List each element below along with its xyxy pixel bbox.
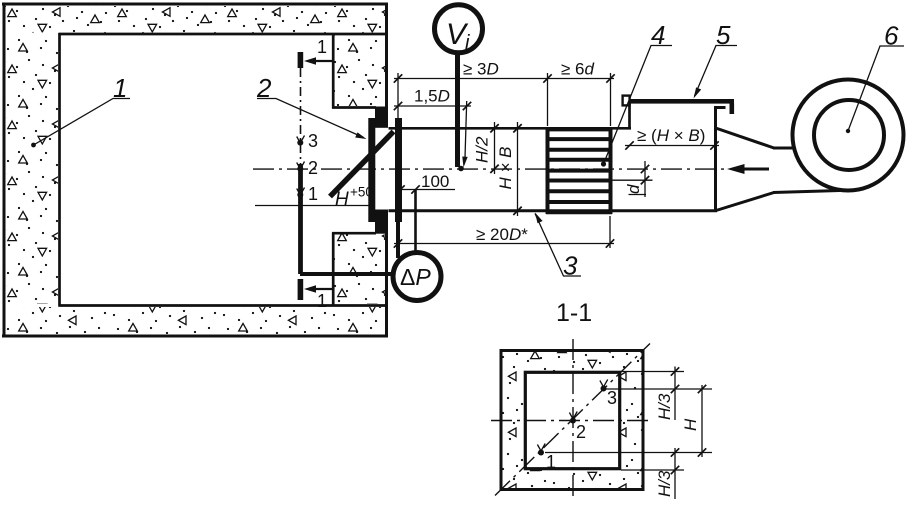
tick H bottom [698,448,706,456]
tick 1,5D right [463,102,471,110]
chamber wall hatch right lower block [335,235,386,305]
connector left wall [628,103,631,130]
section wall hatch [500,349,644,491]
upper right block bottom edge [332,106,376,109]
damper blade 2 [330,132,394,197]
lower right block left edge [332,233,335,306]
dim d second line [611,179,653,181]
chamber wall inner bottom edge [59,304,388,307]
tick H/2 bottom [490,165,498,173]
transition top slant [716,128,775,148]
section dim H/3 upper line [674,367,676,421]
callout 2 leader [257,99,364,138]
callout 1 leader [34,99,131,146]
grid 4 left edge [546,128,550,215]
svg-text:1-1: 1-1 [556,299,592,327]
fan inlet box top stub [714,106,726,109]
section dim H/3 lower line [674,448,676,499]
svg-text:2: 2 [256,73,272,103]
grid right edge [609,128,613,215]
section vertical centerline [572,339,574,500]
text d underline [629,194,647,196]
svg-text:5: 5 [716,20,731,50]
transition bottom tangent [773,191,840,193]
transition top horizontal [773,147,794,150]
sensor Vi stem [455,53,460,167]
section diagonal [495,344,650,496]
svg-text:1: 1 [546,452,556,472]
probe point 1 marker [297,188,305,198]
callout 3 leader [535,214,581,277]
duct centerline [253,168,727,170]
fan inlet box left wall [714,108,717,212]
dim >=(HxB) line [625,145,719,147]
pressure pipe horizontal to dP [300,272,394,276]
lower right block top edge [332,232,376,235]
svg-text:≥ 3D: ≥ 3D [463,60,499,79]
section horizontal centerline [491,420,653,422]
svg-text:1: 1 [308,184,318,204]
tick (HxB) left [625,141,633,149]
1,5D pointer arrowhead [462,157,467,168]
callout 2 arrowhead [355,132,366,139]
chamber wall outer bottom edge [2,335,388,338]
tick upper H/3 top [671,367,679,375]
chamber wall outer right edge upper [385,3,388,128]
section dim H line [701,385,703,457]
chamber wall hatch bottom band [5,307,385,334]
svg-text:3: 3 [563,251,578,281]
section ext line inner bottom [621,469,684,471]
probe point 2 marker [297,162,305,172]
dim line 1,5D [394,105,471,107]
probe point 3 marker [297,136,305,146]
svg-text:4: 4 [651,20,665,50]
chamber wall 1 outer top edge [2,3,388,6]
tick lower H/3 bottom [671,466,679,474]
tick H/2 top [490,124,498,132]
callout 5 arrowhead [694,87,702,98]
callout 3 arrowhead [535,213,543,224]
svg-text:6: 6 [884,21,899,51]
svg-text:H/2: H/2 [473,136,492,163]
section point 1 marker [537,444,545,456]
chamber wall hatch top band [5,6,385,33]
thin lower reference line in chamber [255,205,374,207]
section outer square [501,351,643,490]
wall opening black fill top [375,107,388,128]
section point 3 marker [600,380,608,392]
extension line x=610.5 [610,73,612,126]
svg-text:3: 3 [308,131,318,151]
connector right hook [730,104,735,115]
dim >=20D* line [394,243,614,245]
section mark top bar [298,52,304,68]
1,5D pointer line down [465,101,467,158]
tick 20D right [606,239,614,247]
fan 6 outer casing circle [793,80,904,191]
callout 4 leader dot [601,161,606,166]
sensor Vi stem end dot [458,166,464,172]
sensor Vi circle [435,5,483,53]
svg-text:i: i [465,32,470,54]
tick at 398 [394,74,402,82]
chamber wall hatch right upper block [335,36,386,107]
svg-text:1: 1 [317,291,327,311]
callout 5 leader [695,46,738,97]
duct bottom wall [389,209,718,212]
section mark bottom bar [298,279,304,300]
chamber wall hatch left band [6,35,58,304]
upper right block left edge [332,34,335,109]
tick upper H/3 bottom [671,385,679,393]
fan inner circle [814,100,884,170]
manometer dP circle [393,253,441,301]
connector 5 top plate [628,99,734,104]
connector left hook square [623,96,630,106]
section ext line point1 [545,452,712,454]
wall opening black fill bottom [375,210,388,234]
extension x=610 lower [609,216,611,248]
section mark bottom arrow [304,285,332,293]
tick 100 left [396,185,404,193]
extension line x=398 [397,73,399,118]
svg-text:H: H [681,418,700,431]
section inner square [525,372,619,468]
damper flange right plate [395,118,402,222]
svg-text:H × B: H × B [496,147,515,190]
tick H top [698,385,706,393]
svg-text:≥ 20D*: ≥ 20D* [476,225,528,244]
section ext line inner top [621,371,684,373]
dim HxB line [517,122,519,216]
tick lower H/3 top [671,448,679,456]
extension line x=547.5 [547,73,549,126]
tick 20D left [394,239,402,247]
section mark top arrow [304,57,332,65]
dim 100 line [399,189,455,191]
svg-text:+50: +50 [350,185,373,200]
svg-text:2: 2 [576,422,586,442]
probe tube upper dash-dot [300,68,302,164]
tick (HxB) right [710,141,718,149]
svg-text:≥ 6d: ≥ 6d [561,60,595,79]
probe tube lower solid [298,164,303,274]
duct top wall [389,127,632,130]
dim line >=3D / >=6d [394,78,614,80]
tick 100 right [411,185,419,193]
section point 2 marker [569,412,577,424]
svg-text:1: 1 [317,37,327,57]
svg-text:H/3: H/3 [655,470,674,497]
svg-text:ΔP: ΔP [400,264,431,290]
tick at 610.5 [606,74,614,82]
tick at 547.5 [543,74,551,82]
svg-text:100: 100 [421,172,449,191]
dP tap pipe from duct bottom [414,190,417,254]
tick d top [641,165,649,173]
tick 1,5D left [394,102,402,110]
fan center dot [846,129,850,133]
svg-text:H/3: H/3 [655,393,674,420]
chamber wall outer left edge [3,3,6,337]
dP tap pipe from flange [396,222,400,258]
svg-text:d: d [624,184,643,194]
flow arrow tail [742,168,769,171]
dim d vertical line [644,161,646,197]
chamber wall outer right edge lower [385,210,388,337]
svg-text:1,5D: 1,5D [414,87,450,106]
callout 6 leader [848,46,904,131]
transition bottom slant [716,193,774,211]
svg-text:1: 1 [113,73,127,103]
svg-text:H: H [335,189,349,210]
dim H/2 line [494,122,496,174]
tick HxB top [513,124,521,132]
flow arrow head [727,164,745,174]
callout 1 leader dot [31,143,36,148]
svg-text:3: 3 [607,388,617,408]
tick d bottom [641,176,649,184]
tick HxB bottom [513,207,521,215]
grid slats [546,129,612,212]
damper flange left plate [368,118,375,222]
chamber wall inner left edge [58,33,61,307]
section ext line point3 [606,388,712,390]
svg-text:≥ (H × B): ≥ (H × B) [637,126,705,145]
callout 4 leader [604,46,673,165]
chamber wall inner top edge [59,33,388,36]
svg-text:2: 2 [308,158,318,178]
